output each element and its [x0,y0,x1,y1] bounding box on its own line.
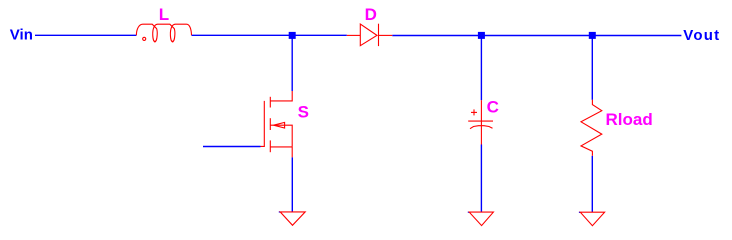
svg-text:D: D [365,5,377,24]
svg-text:Rload: Rload [606,110,653,129]
svg-text:S: S [298,103,309,122]
svg-text:L: L [159,5,169,24]
svg-text:Vout: Vout [683,27,720,44]
svg-text:C: C [487,98,499,117]
svg-text:Vin: Vin [10,27,33,44]
